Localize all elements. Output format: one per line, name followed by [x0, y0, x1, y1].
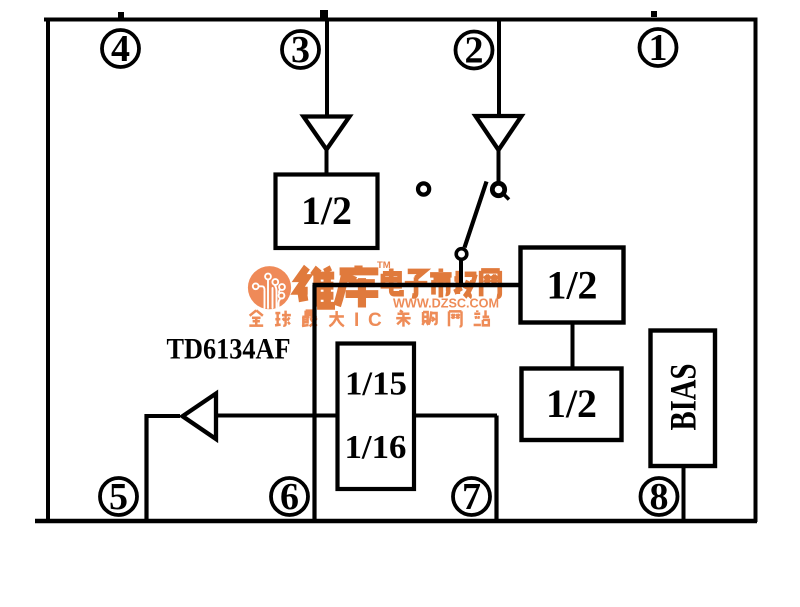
pin 8: [641, 476, 678, 518]
svg-text:1: 1: [649, 27, 668, 69]
wire BIAS to pin 8: [682, 465, 686, 521]
watermark char gou: [422, 311, 436, 325]
svg-text:TD6134AF: TD6134AF: [167, 333, 291, 366]
wire pin2 to amplifier A2: [497, 20, 501, 114]
pin 3: [282, 29, 319, 71]
wire A1 to divider U1: [325, 150, 329, 176]
svg-text:1/2: 1/2: [547, 263, 598, 308]
watermark char da: [329, 311, 344, 326]
watermark char shi: [430, 269, 452, 298]
svg-text:1/2: 1/2: [301, 188, 352, 233]
wire divider U4 to A3: [218, 414, 338, 418]
BIAS block: [651, 331, 716, 467]
switch SW1 arm: [465, 182, 487, 248]
svg-text:I: I: [354, 310, 359, 331]
switch SW1 open contact: [418, 183, 429, 194]
divider 1/15 1/16 box U4: [338, 344, 415, 490]
wire A3 to pin 5 corner: [146, 414, 180, 418]
pin 7: [453, 476, 490, 518]
divider 1/2 box U3: [522, 369, 622, 441]
pin 6: [271, 476, 308, 518]
svg-text:1/2: 1/2: [546, 381, 597, 426]
divider 1/2 box U2: [521, 248, 624, 323]
watermark logo circle: [248, 266, 291, 309]
amplifier A3 output buffer: [183, 394, 217, 440]
wire down to pin 5: [144, 414, 148, 521]
svg-text:6: 6: [280, 476, 299, 518]
watermark char wang: [481, 271, 500, 297]
watermark char wang2: [449, 311, 462, 326]
pin 1: [640, 27, 677, 69]
watermark char quan: [249, 310, 263, 325]
wire U2 to U3: [571, 322, 575, 369]
wire A2 to switch SW1: [497, 151, 501, 182]
IC package outline: [35, 18, 757, 524]
pin 5: [100, 476, 137, 518]
svg-text:TM: TM: [377, 260, 391, 271]
svg-text:1/15: 1/15: [345, 366, 407, 403]
watermark char dian: [383, 269, 402, 294]
wire down to pin 7: [494, 416, 498, 522]
svg-text:2: 2: [465, 30, 484, 72]
svg-text:8: 8: [650, 476, 669, 518]
wire pin3 to amplifier A1: [325, 20, 329, 115]
svg-text:3: 3: [291, 29, 310, 71]
svg-text:7: 7: [462, 476, 481, 518]
watermark char qiu: [275, 311, 291, 326]
svg-text:C: C: [368, 310, 382, 331]
wire switch to bus: [459, 260, 463, 288]
wire U4 right to pin 7 corner: [414, 414, 497, 418]
pin 2: [456, 30, 493, 72]
watermark char chang: [454, 271, 476, 298]
wire bus down to pin 6: [312, 285, 316, 521]
amplifier A2: [476, 116, 522, 150]
amplifier A1: [304, 117, 350, 150]
switch SW1 lower contact: [456, 249, 467, 260]
watermark char ku: [337, 266, 378, 308]
watermark char cai: [396, 310, 411, 326]
svg-text:4: 4: [111, 28, 130, 70]
svg-text:BIAS: BIAS: [664, 364, 705, 431]
watermark char wei: [298, 267, 335, 306]
divider 1/2 box U1: [276, 175, 378, 249]
watermark char zhan: [474, 310, 490, 325]
pin lead ticks above package: [118, 12, 124, 18]
svg-text:WWW.DZSC.COM: WWW.DZSC.COM: [393, 296, 499, 311]
switch SW1 pivot contact: [492, 183, 509, 199]
svg-text:5: 5: [109, 476, 128, 518]
svg-text:1/16: 1/16: [345, 429, 407, 466]
watermark char zi: [405, 271, 428, 296]
wire horizontal bus to divider U2: [313, 283, 522, 287]
watermark char zui: [302, 311, 317, 327]
pin 4: [102, 28, 139, 70]
